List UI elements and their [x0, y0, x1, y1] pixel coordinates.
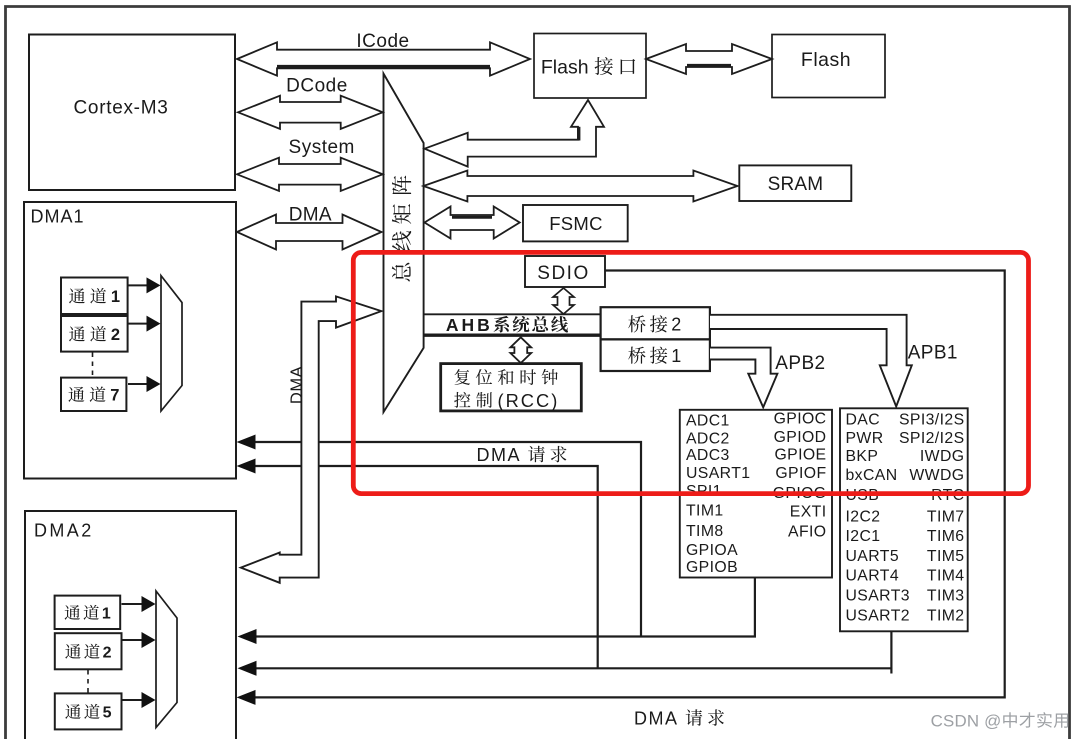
svg-text:FSMC: FSMC — [549, 213, 603, 234]
svg-text:BKP: BKP — [846, 448, 879, 465]
svg-text:1: 1 — [671, 346, 681, 366]
block SDIO — [525, 256, 605, 287]
dashed link DMA2 channels — [87, 670, 89, 693]
svg-text:5: 5 — [103, 705, 112, 722]
watermark CSDN @中才实用 — [931, 712, 1069, 731]
block 复位和时钟控制(RCC) — [441, 364, 582, 411]
wire APB1-periph to DMA1 (DMA request B) — [254, 466, 598, 668]
svg-text:APB1: APB1 — [908, 343, 958, 364]
svg-text:DAC: DAC — [846, 412, 881, 429]
block FSMC — [523, 205, 628, 241]
mux DMA2 — [156, 591, 177, 728]
svg-text:DCode: DCode — [286, 75, 348, 96]
label DMA 请求 (upper) — [477, 445, 567, 465]
svg-text:SRAM: SRAM — [768, 174, 824, 195]
svg-text:DMA: DMA — [289, 205, 332, 226]
bus arrow DCode — [238, 96, 383, 129]
channel box 通道2 (DMA1) — [61, 316, 128, 352]
dashed link DMA1 channels — [92, 353, 94, 378]
thick line ICode — [277, 65, 490, 68]
block SRAM — [739, 165, 851, 201]
svg-text:DMA: DMA — [477, 445, 522, 465]
wire AHB bottom line — [424, 334, 600, 337]
block DMA1 — [24, 202, 236, 479]
arrowhead wire B into DMA1 — [237, 459, 256, 474]
svg-text:Flash: Flash — [541, 56, 589, 78]
svg-text:bxCAN: bxCAN — [846, 467, 898, 484]
bus matrix 总线矩阵 — [384, 74, 424, 413]
label APB2 — [775, 353, 825, 374]
svg-text:1: 1 — [102, 606, 111, 623]
svg-text:I2C1: I2C1 — [846, 528, 881, 545]
wire+arrow bridge1 to APB2 — [710, 348, 777, 408]
svg-text:1: 1 — [111, 288, 120, 306]
svg-text:2: 2 — [671, 315, 681, 335]
bus arrow System — [237, 158, 383, 191]
svg-text:GPIOD: GPIOD — [774, 429, 827, 446]
block 桥接1 — [601, 339, 710, 371]
label DMA 请求 (bottom) — [634, 708, 724, 728]
svg-text:GPIOB: GPIOB — [686, 559, 738, 576]
block DMA2 — [25, 511, 236, 739]
svg-text:UART5: UART5 — [846, 548, 900, 565]
svg-text:PWR: PWR — [846, 430, 884, 447]
red highlight rectangle — [353, 252, 1028, 493]
svg-text:7: 7 — [110, 387, 119, 405]
svg-text:2: 2 — [103, 644, 112, 661]
svg-text:CSDN @: CSDN @ — [931, 712, 1002, 731]
svg-text:DMA: DMA — [288, 366, 306, 404]
wire channel to mux (DMA2 y=700) — [122, 692, 156, 708]
svg-text:IWDG: IWDG — [920, 448, 965, 465]
wire SDIO to DMA2 — [255, 271, 1005, 698]
elbow arrow matrix-Flash接口 — [425, 100, 605, 167]
svg-text:USART2: USART2 — [846, 608, 910, 625]
channel box 通道2 (DMA2) — [55, 633, 122, 669]
svg-text:UART4: UART4 — [846, 568, 900, 585]
bus matrix label char 矩 — [392, 204, 411, 224]
wire channel to mux (DMA1 y=323.6) — [128, 316, 161, 332]
svg-text:GPIOC: GPIOC — [774, 411, 827, 428]
svg-text:SDIO: SDIO — [537, 263, 589, 284]
svg-text:TIM1: TIM1 — [686, 502, 724, 519]
svg-text:ADC3: ADC3 — [686, 447, 730, 464]
mux DMA1 — [161, 276, 182, 411]
svg-text:GPIOF: GPIOF — [775, 465, 826, 482]
wire channel to mux (DMA2 y=604) — [122, 596, 156, 612]
label DCode — [286, 75, 348, 96]
peripheral block APB1 (DAC..TIM2) — [840, 408, 968, 631]
label AHB系统总线 — [446, 315, 568, 335]
block Flash — [772, 35, 885, 98]
svg-text:DMA: DMA — [634, 708, 679, 728]
svg-text:TIM8: TIM8 — [686, 523, 724, 540]
svg-text:I2C2: I2C2 — [846, 509, 881, 526]
bus matrix label char 总 — [392, 263, 411, 282]
bus arrow SRAM — [423, 171, 737, 202]
svg-text:AFIO: AFIO — [788, 524, 826, 541]
svg-text:ICode: ICode — [356, 31, 409, 52]
bus arrow DMA (DMA1-matrix) — [237, 215, 382, 250]
wire channel to mux (DMA1 y=384) — [128, 376, 161, 392]
bus matrix label char 阵 — [392, 176, 411, 194]
wire channel to mux (DMA1 y=285.4) — [128, 277, 161, 293]
wire channel to mux (DMA2 y=640) — [122, 632, 156, 648]
svg-text:EXTI: EXTI — [790, 504, 827, 521]
peripheral block APB2 (ADC1..AFIO) — [680, 410, 832, 578]
label ICode — [356, 31, 409, 52]
svg-text:System: System — [289, 137, 355, 158]
bus arrow Flash接口-Flash — [646, 44, 772, 74]
label DMA bus — [289, 205, 332, 226]
svg-text:APB2: APB2 — [775, 353, 825, 374]
wire APB1 box connector — [255, 631, 891, 673]
arrow AHB-RCC — [510, 337, 531, 363]
block 桥接2 — [601, 307, 710, 339]
label DMA (rotated, on elbow) — [288, 366, 306, 404]
channel box 通道1 (DMA2) — [55, 596, 121, 629]
svg-text:USART1: USART1 — [686, 465, 750, 482]
svg-text:2: 2 — [111, 326, 120, 344]
channel box 通道5 (DMA2) — [55, 693, 122, 729]
label System — [289, 137, 355, 158]
svg-text:Flash: Flash — [801, 49, 851, 71]
channel box 通道1 (DMA1) — [61, 278, 128, 315]
svg-text:USART3: USART3 — [846, 588, 910, 605]
svg-text:GPIOE: GPIOE — [774, 447, 826, 464]
arrowhead wire D into DMA2 — [238, 661, 257, 676]
svg-text:TIM2: TIM2 — [927, 608, 965, 625]
svg-text:Cortex-M3: Cortex-M3 — [74, 98, 169, 119]
block Flash 接口 — [534, 34, 646, 99]
wire APB2-periph to DMA1 (DMA request A) — [254, 442, 641, 637]
svg-text:AHB: AHB — [446, 315, 493, 335]
bus matrix label char 线 — [392, 231, 411, 251]
thick line Flash bus — [687, 64, 731, 67]
svg-text:SPI3/I2S: SPI3/I2S — [899, 412, 965, 429]
svg-text:ADC2: ADC2 — [686, 430, 730, 447]
bus arrow FSMC — [425, 207, 520, 239]
arrowhead SDIO wire into DMA2 — [237, 690, 256, 705]
thick line FSMC bus — [452, 216, 492, 219]
svg-text:TIM5: TIM5 — [927, 548, 965, 565]
svg-text:GPIOA: GPIOA — [686, 542, 738, 559]
svg-text:DMA2: DMA2 — [34, 521, 94, 541]
arrow SDIO-AHB — [553, 288, 574, 314]
wire APB2 box connector — [255, 578, 755, 637]
svg-text:(RCC): (RCC) — [498, 390, 560, 411]
svg-text:TIM4: TIM4 — [927, 568, 965, 585]
elbow arrow DMA2-matrix — [241, 296, 382, 582]
wire AHB top line — [424, 313, 600, 315]
block Cortex-M3 — [29, 35, 235, 191]
svg-text:TIM6: TIM6 — [927, 528, 965, 545]
svg-text:SPI2/I2S: SPI2/I2S — [899, 430, 965, 447]
bus arrow ICode — [237, 42, 530, 75]
svg-text:TIM3: TIM3 — [927, 588, 965, 605]
svg-text:WWDG: WWDG — [909, 467, 964, 484]
arrowhead wire C into DMA2 — [238, 629, 257, 644]
arrowhead wire A into DMA1 — [237, 435, 256, 450]
channel box 通道7 (DMA1) — [61, 378, 126, 411]
svg-text:TIM7: TIM7 — [927, 509, 965, 526]
label APB1 — [908, 343, 958, 364]
svg-text:ADC1: ADC1 — [686, 412, 730, 429]
wire+arrow bridge2 to APB1 — [710, 315, 912, 407]
svg-text:DMA1: DMA1 — [31, 207, 85, 227]
